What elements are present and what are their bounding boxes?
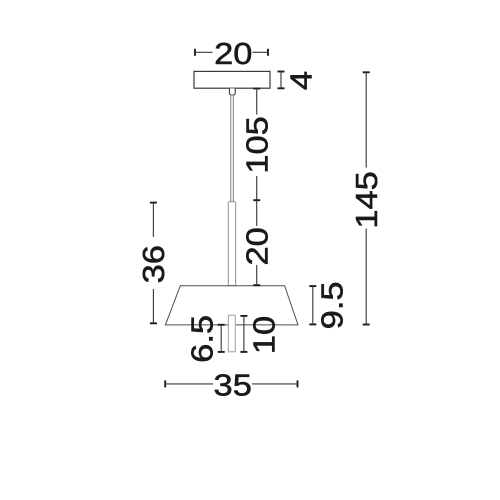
suspension cable [231,95,234,201]
svg-text:9.5: 9.5 [315,281,349,329]
svg-text:145: 145 [350,171,384,228]
dimension: 20 (canopy width, top) [195,37,268,71]
svg-text:20: 20 [214,37,252,71]
dimension: 105 (cable length) [240,89,274,201]
svg-text:36: 36 [137,245,171,283]
canopy (ceiling plate) [194,71,270,88]
dimension: 9.5 (shade height, right) [309,281,349,329]
dimension: 36 (left side) [137,203,171,324]
shade (trapezoid) [165,286,298,325]
svg-text:20: 20 [240,227,274,265]
dimension: 35 (shade width, bottom) [165,368,297,402]
dimension: 145 (overall height, far right) [350,72,384,324]
cable connector below canopy [229,88,235,95]
stem below shade [228,315,235,352]
rod [228,202,235,286]
svg-text:6.5: 6.5 [185,315,219,363]
svg-text:105: 105 [240,116,274,173]
svg-text:10: 10 [247,316,281,354]
dimension: 10 (stem total) [240,316,281,354]
dimension: 20 (rod length) [240,200,274,285]
svg-text:35: 35 [214,368,252,402]
dimension: 4 (canopy height, right of canopy) [278,71,319,90]
svg-text:4: 4 [284,71,318,90]
dimension: 6.5 (stem below shade) [185,315,224,363]
